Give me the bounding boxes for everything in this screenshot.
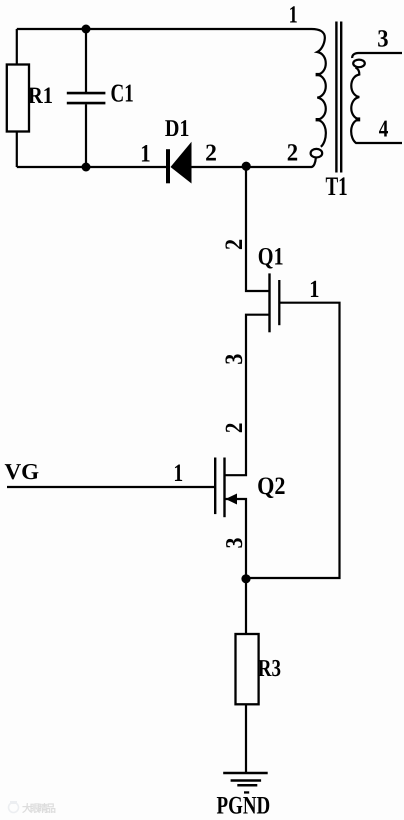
svg-text:Q1: Q1 xyxy=(258,244,284,271)
svg-text:2: 2 xyxy=(205,141,217,167)
svg-text:2: 2 xyxy=(221,239,248,250)
svg-text:T1: T1 xyxy=(326,171,348,201)
svg-text:Q2: Q2 xyxy=(257,473,285,500)
svg-text:VG: VG xyxy=(5,459,40,484)
svg-text:3: 3 xyxy=(222,538,248,549)
svg-text:1: 1 xyxy=(289,1,298,28)
svg-text:C1: C1 xyxy=(111,78,134,107)
svg-text:大眼睛品: 大眼睛品 xyxy=(22,802,56,815)
svg-text:3: 3 xyxy=(377,25,388,52)
svg-text:4: 4 xyxy=(379,116,389,142)
svg-text:R1: R1 xyxy=(28,83,53,109)
svg-text:2: 2 xyxy=(221,423,248,434)
svg-text:R3: R3 xyxy=(258,655,281,682)
svg-text:D1: D1 xyxy=(165,116,190,142)
svg-text:1: 1 xyxy=(173,460,183,487)
svg-text:2: 2 xyxy=(287,140,298,167)
svg-text:1: 1 xyxy=(309,276,319,303)
svg-text:3: 3 xyxy=(221,354,248,365)
svg-text:PGND: PGND xyxy=(217,792,271,820)
svg-text:1: 1 xyxy=(140,140,150,167)
